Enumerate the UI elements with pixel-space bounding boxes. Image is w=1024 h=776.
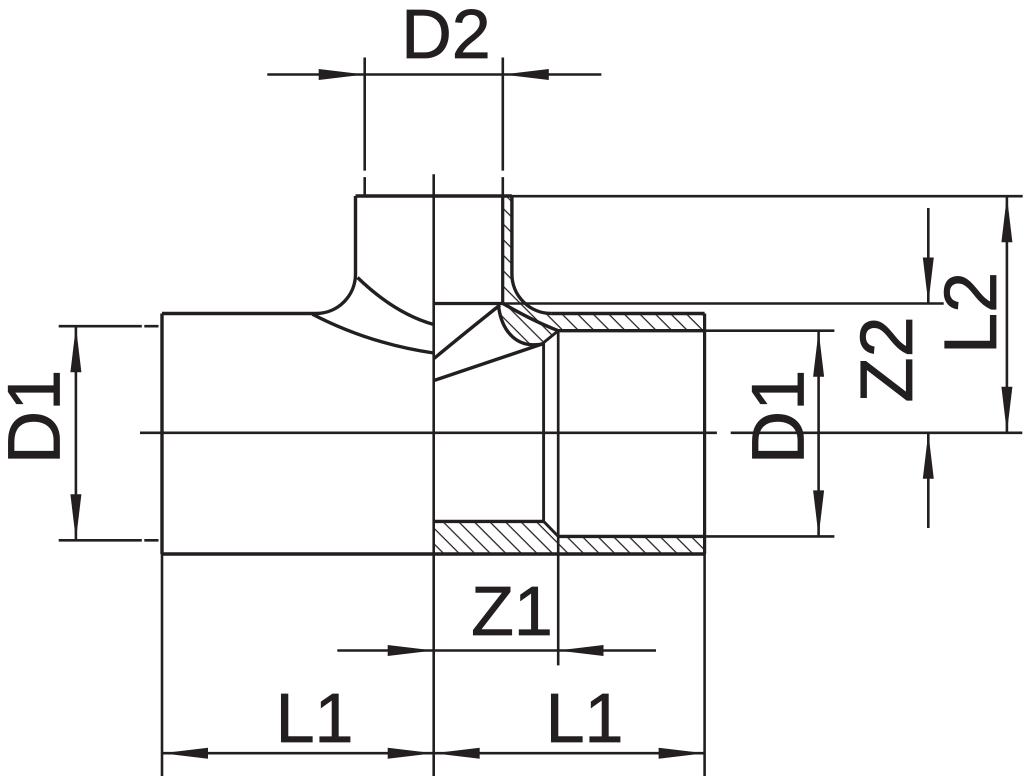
dimension Z2: upper segment with down arrowhead [927, 208, 930, 304]
fitting outline: run bottom edge [162, 552, 705, 555]
section edge: chamfer small-end edge [542, 343, 545, 522]
dimension D2: left arrowhead [319, 69, 365, 80]
section edge: branch socket bore right wall [501, 196, 504, 304]
section curve: elbow inner fillet [503, 304, 558, 331]
svg-text:L2: L2 [929, 272, 1012, 354]
dimension D1 right: dimension line [817, 331, 820, 537]
fitting outline: run top edge (left view) [162, 312, 316, 315]
view curve: outer fillet saddle upper [358, 278, 434, 325]
section curve: branch bore / run bore saddle [434, 305, 500, 359]
dimension D1 right: bottom extension line (bore bottom extended) [705, 535, 835, 538]
section curve: inner corner bulge [499, 306, 545, 345]
svg-text:L1: L1 [276, 679, 354, 757]
svg-text:L1: L1 [546, 679, 624, 757]
fitting outline: right outer fillet [512, 274, 552, 314]
section edge: run socket bore top [558, 329, 704, 332]
dimension D2: right arrowhead [503, 69, 549, 80]
fitting outline: branch right outer wall [510, 196, 513, 274]
svg-text:D1: D1 [737, 370, 820, 465]
section edge: upper socket chamfer [544, 331, 559, 343]
fitting outline: right end face [703, 314, 706, 555]
dimension D2: left extension line [363, 58, 366, 196]
dimension D1 right: bottom arrowhead [813, 490, 824, 536]
dimension L1 left: dimension line [162, 752, 434, 755]
dimension D1 right: top arrowhead [813, 331, 824, 377]
section edge: run socket bore bottom [558, 535, 704, 538]
dimension Z2: top extension line (branch shoulder extended) [503, 302, 944, 305]
dimension Z2: lower segment with up arrowhead [927, 433, 930, 528]
branch vertical centerline [432, 174, 435, 776]
hatched wall: lower run band [434, 521, 705, 554]
dimension D2: dimension line [267, 73, 601, 76]
svg-text:D1: D1 [0, 370, 75, 465]
fitting outline: left end face [160, 314, 163, 555]
svg-text:D2: D2 [401, 0, 490, 73]
section edge: lower socket chamfer [544, 521, 559, 536]
extension line: left end face extended down [161, 554, 164, 776]
dimension L1 right: dimension line [434, 752, 705, 755]
dimension L2: dimension line with two arrowheads [1006, 196, 1009, 433]
svg-text:Z1: Z1 [471, 572, 553, 650]
dimension D1 left: dimension line [75, 326, 78, 540]
dimension Z1: dimension line [337, 649, 656, 652]
dimension Z1: right extension line [557, 536, 560, 665]
dimension Z1: left arrowhead [388, 645, 434, 656]
dimension D1 left: bottom extension line [59, 539, 159, 542]
section edge: branch socket shoulder [434, 302, 503, 305]
fitting outline: branch top edge [356, 194, 512, 197]
hatched wall: branch strip + elbow + upper socket band [499, 196, 705, 345]
section edge: socket bottom face [557, 331, 560, 537]
fitting outline: left outer fillet [316, 274, 356, 314]
dimension D1 left: bottom arrowhead [70, 494, 81, 540]
svg-text:Z2: Z2 [845, 316, 928, 402]
section curve: lower interior saddle [434, 344, 544, 381]
dimension Z1: right arrowhead [558, 645, 604, 656]
dimension D1 right: top extension line (bore top extended) [705, 329, 835, 332]
section edge: run through-bore bottom [434, 520, 544, 523]
dimension D1 left: top extension line [59, 325, 159, 328]
fitting outline: run top edge (section) [551, 312, 704, 315]
run horizontal centerline [140, 431, 1022, 434]
fitting outline: branch left wall [354, 196, 357, 274]
dimension D1 left: top arrowhead [70, 326, 81, 372]
dimension D2: right extension line [501, 58, 504, 196]
extension line: right end face extended down [703, 554, 706, 776]
dimension L2: top extension line (branch top extended) [512, 195, 1023, 198]
view curve: outer fillet saddle lower [313, 314, 434, 353]
